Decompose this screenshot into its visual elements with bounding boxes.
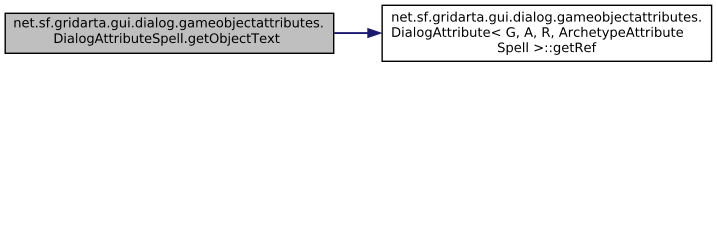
arrowhead	[368, 28, 382, 38]
label callee line 2	[392, 27, 683, 40]
edge wire caller to callee	[334, 32, 369, 34]
node callee box DialogAttribute getRef	[382, 5, 711, 61]
label callee line 1	[392, 12, 700, 25]
label caller line 1	[14, 17, 322, 30]
label callee line 3	[498, 42, 596, 55]
label caller line 2	[55, 33, 280, 46]
node caller box DialogAttributeSpell.getObjectText	[5, 13, 334, 53]
